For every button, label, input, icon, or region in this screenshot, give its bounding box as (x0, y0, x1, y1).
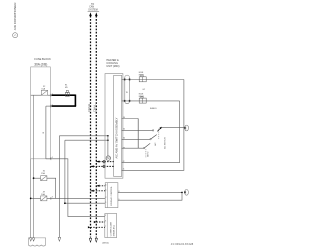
svg-text:9: 9 (119, 199, 120, 201)
fuse F1 (41, 90, 47, 95)
connector C1 label (65, 84, 68, 89)
connector oval O3 (184, 125, 188, 131)
wire CAN-L bus (dashed vertical) (95, 16, 97, 238)
wire W2 vertical drop (45, 106, 47, 159)
svg-text:CONTROLLER: CONTROLLER (110, 221, 112, 236)
switch mechanical link 1 (dashed) (145, 149, 147, 157)
svg-text:AUTO: AUTO (147, 151, 150, 157)
svg-text:8: 8 (105, 221, 106, 223)
wire feed to fuse F3 (31, 197, 41, 199)
svg-text:33: 33 (123, 148, 125, 150)
node CAN-L top arrow (95, 12, 98, 16)
box A output wire a (118, 191, 182, 193)
svg-text:CAN: CAN (89, 6, 94, 9)
left margin section symbol (circled glyph) (13, 33, 18, 38)
node CAN-L bottom arrow (95, 238, 97, 242)
junction dot wire W5 (64, 202, 66, 204)
CAN stub arrow at bus CAN-H low (94, 221, 96, 223)
continuation box with torn edge (bottom left) (28, 238, 45, 246)
junction dot L2 on internal bus (107, 139, 109, 141)
wire 2 from amp through connector (122, 100, 180, 102)
pin numbers box A (106, 184, 120, 203)
CAN stub into box A from CAN-L (dashed) (96, 185, 105, 187)
switch blade top with arrow (157, 127, 162, 132)
CAN stub B into ECU (dashed) (91, 165, 114, 167)
node CAN-H bottom arrow (89, 238, 91, 242)
junction dot on feed A (30, 198, 32, 200)
switch feed wire s2 (122, 129, 153, 131)
pin 4 tick and number on box bottom (51, 157, 53, 160)
switch blade low (143, 143, 150, 149)
fuse F2 label (41, 171, 46, 176)
motor M1 circle (106, 156, 110, 160)
fuse F1 label (41, 86, 46, 91)
feed A arrow into continuation box (30, 238, 32, 242)
wire feed to fuse F2 (34, 177, 41, 179)
wire 1 from amp through connector (122, 79, 184, 81)
fuse block J/B box (31, 67, 51, 159)
wire W1 power (thick) (52, 94, 76, 96)
node CAN-H top arrow (89, 12, 92, 16)
CAN stub into box B from CAN-L (dashed) (91, 226, 105, 228)
node label: TO CAN SYSTEM (top of bus) (88, 4, 98, 11)
svg-text:6: 6 (106, 184, 107, 186)
pin 1 tick and number (51, 93, 53, 96)
pin tick on wire W4 (51, 197, 53, 200)
svg-text:34: 34 (123, 138, 125, 140)
switch common bar (137, 119, 139, 149)
svg-text:30A (J/B): 30A (J/B) (34, 63, 47, 67)
svg-text:21: 21 (123, 169, 125, 171)
svg-text:JCIWA0183GB: JCIWA0183GB (171, 243, 194, 246)
wire 2 return loop (122, 101, 180, 163)
pin numbers box B (105, 215, 106, 228)
wire into fuse F1 from box edge (31, 94, 42, 96)
svg-text:(REAR A/C): (REAR A/C) (113, 225, 116, 236)
CAN stub A into ECU (dashed) (96, 161, 113, 163)
svg-text:A/C AND AV SWITCH ASSEMBLY: A/C AND AV SWITCH ASSEMBLY (114, 117, 118, 158)
fuse F2 (41, 176, 47, 181)
wire L1 ground vertical (58, 136, 60, 237)
wire W1 corner down (thick) (74, 95, 76, 107)
svg-text:7: 7 (105, 226, 106, 228)
connector C2a (in-line) (139, 75, 146, 82)
svg-text:W: W (126, 92, 128, 94)
connector oval O1 (through connector) (124, 75, 130, 104)
svg-text:M: M (107, 156, 109, 160)
svg-text:36: 36 (123, 117, 125, 119)
svg-text:UNIT (M40): UNIT (M40) (106, 65, 119, 68)
junction dot at connector O2 (181, 192, 183, 194)
pin 2 tick and number (51, 104, 53, 107)
svg-text:M5: M5 (65, 87, 68, 89)
connector C2a label (139, 72, 144, 77)
svg-text:35: 35 (123, 128, 125, 130)
switch feed wire s4 (122, 147, 144, 149)
wire fuse F1 to pin 1 (48, 94, 52, 96)
junction dot on feed B (33, 177, 35, 179)
switch feed wire s1 (122, 118, 139, 120)
fuse block label (34, 57, 51, 67)
wire 1 return loop (122, 80, 184, 171)
CAN stub arrow at bus CAN-L low (88, 226, 91, 228)
connector oval O2 (184, 189, 188, 195)
svg-text:1: 1 (106, 202, 107, 204)
box B pin strip line (106, 214, 108, 238)
svg-text:22: 22 (123, 161, 125, 163)
CAN stub B arrow at bus (91, 165, 93, 167)
wire W4 to box A (47, 197, 105, 199)
connector C2b (in-line) (139, 96, 146, 103)
svg-text:SYSTEM: SYSTEM (88, 9, 98, 11)
wire L1 ground horizontal (59, 135, 108, 137)
switch output wire to connector (162, 127, 185, 129)
svg-text:FUSE BLOCK: FUSE BLOCK (34, 57, 51, 61)
box A pin strip line (106, 183, 108, 208)
svg-text:AIR CONDITIONER: AIR CONDITIONER (13, 2, 17, 30)
ground arrow for L1 (58, 237, 61, 241)
pin numbers for switch feeds (123, 117, 125, 150)
switch contact top (152, 130, 153, 131)
wire L2 vertical (64, 140, 66, 203)
CAN stub into box B from CAN-H (dashed) (96, 221, 105, 223)
svg-text:A/C SWITCH: A/C SWITCH (164, 137, 167, 149)
wire W3 from fuse F2 (47, 178, 56, 198)
ECU inner box (A/C auto amp) (114, 75, 122, 176)
left margin vertical section label (13, 2, 17, 30)
wire W2 bottom run to box B (46, 159, 105, 217)
switch feed wire s3 (122, 138, 150, 140)
box A output wire b (118, 192, 182, 200)
connector C1 (in-line) (65, 91, 69, 97)
fuse F3 (41, 196, 47, 201)
wire bracket over CAN bus arrows (88, 10, 100, 12)
box B (controller) (105, 214, 117, 238)
svg-text:DISPLAY CONTROL: DISPLAY CONTROL (110, 185, 113, 205)
svg-text:5: 5 (106, 189, 107, 191)
shielded pin marker B (103, 165, 105, 168)
CAN stub arrow at bus CAN-H (91, 190, 93, 192)
svg-text:(M250): (M250) (102, 242, 109, 244)
wire W2 power return (thick) (52, 105, 77, 107)
CAN stub into box A from CAN-H (dashed) (91, 190, 106, 192)
connector C2b label (139, 94, 144, 99)
svg-text:TO: TO (91, 4, 94, 6)
wire battery feed B (second vertical) (33, 95, 35, 238)
fuse F3 label (41, 191, 46, 196)
switch mechanical link 2 (dashed) (158, 129, 160, 139)
svg-text:SHIELD: SHIELD (150, 108, 157, 110)
wire W2 thin segment inside box (46, 105, 52, 107)
switch blade mid (150, 135, 157, 140)
ECU unit label (106, 59, 119, 68)
junction dot L1 on internal bus (107, 135, 109, 137)
svg-text:CAN-H: CAN-H (87, 104, 91, 112)
wire L2 horizontal into ECU (65, 139, 108, 141)
svg-text:2: 2 (106, 197, 107, 199)
svg-text:8: 8 (119, 191, 120, 193)
shielded pin marker A (103, 160, 105, 163)
wire CAN-H bus (dashed vertical) (90, 16, 92, 238)
CAN stub arrow at bus CAN-L (97, 185, 99, 187)
ECU outer box (A/C unit) (105, 74, 123, 179)
box A (display unit) (105, 183, 118, 208)
wire W5 to box A (65, 202, 105, 204)
wire battery feed A (left vertical) (30, 159, 32, 238)
feed B arrow into continuation box (32, 238, 34, 242)
internal bus wire to motor (107, 136, 109, 156)
pin numbers ECU return wires (123, 161, 125, 171)
CAN stub A arrow at bus (97, 160, 99, 162)
svg-text:3: 3 (105, 215, 106, 217)
svg-text:CAN-L: CAN-L (93, 104, 97, 112)
